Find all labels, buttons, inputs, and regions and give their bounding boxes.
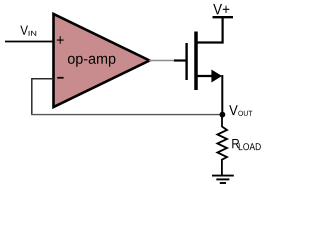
wire: VOUT node to resistor: [221, 115, 223, 127]
transistor Q1 drain lead: [196, 17, 223, 43]
transistor Q1 gate lead: [174, 59, 186, 61]
op-amp − input mark: [57, 77, 63, 79]
transistor Q1 source lead with arrow: [196, 75, 213, 77]
label V+: [213, 4, 229, 15]
label VIN - IN subscript: [29, 31, 37, 36]
transistor Q1 source arrowhead: [211, 70, 222, 83]
transistor Q1 gate bar: [185, 43, 187, 80]
transistor Q1 channel bar: [194, 32, 198, 91]
wire: feedback from op-amp − down the left side: [32, 79, 54, 115]
op-amp label text: [68, 56, 116, 67]
V+ supply bar: [213, 16, 234, 18]
wire: source to VOUT node: [221, 75, 223, 116]
wire: VIN input to op-amp +: [5, 41, 53, 43]
op-amp U1: [54, 14, 150, 107]
label VOUT - OUT subscript: [238, 111, 252, 116]
label RLOAD - R: [232, 139, 239, 148]
label RLOAD - LOAD subscript: [239, 143, 261, 150]
wire: feedback bottom run to VOUT node: [31, 114, 222, 116]
node VOUT junction dot: [220, 112, 226, 118]
op-amp + input mark: [57, 36, 64, 44]
label VIN - V: [20, 26, 28, 35]
ground: [212, 176, 234, 183]
resistor RLOAD: [217, 127, 227, 176]
wire: op-amp output to gate: [149, 60, 177, 62]
label VOUT - V: [229, 105, 238, 115]
